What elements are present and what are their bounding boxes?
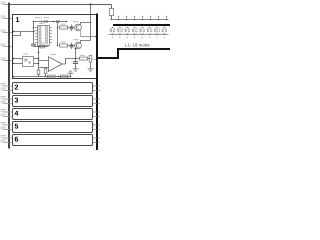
wire row3 left stub a	[3, 98, 13, 100]
wire base Q2	[68, 45, 75, 47]
wire row3 right stub a	[93, 98, 98, 100]
wire opto pin4	[34, 63, 39, 65]
wire terminal rail y19	[110, 19, 169, 21]
bus bar step	[97, 49, 170, 58]
wire op-amp output	[62, 59, 80, 65]
node dots rail y21	[33, 21, 35, 23]
diode D3	[70, 25, 73, 32]
wire vertical x33	[33, 22, 35, 44]
motor unit L6	[148, 26, 151, 37]
diode D5	[40, 45, 45, 48]
wire row4 left stub b	[3, 116, 13, 118]
wire row2 right stub b	[93, 90, 98, 92]
wire emitters to right edge	[81, 36, 98, 38]
IC U1 pads	[39, 27, 48, 44]
bus bar thick top	[113, 24, 170, 26]
wire row3 left stub b	[3, 103, 13, 105]
wire row5 right stub b	[93, 129, 98, 131]
resistor R2	[60, 44, 68, 47]
ground 2	[73, 69, 79, 72]
diode D2	[56, 20, 59, 23]
resistor R5	[80, 57, 88, 60]
wire opto pin2	[13, 63, 23, 65]
wire bus tick y60.5	[3, 60, 13, 62]
wire vertical x57	[57, 22, 59, 46]
wire row6 left stub b	[3, 142, 13, 144]
ground 3	[68, 71, 74, 74]
wire collector Q1	[81, 23, 91, 25]
resistor R8	[61, 75, 69, 78]
wire opto pin1	[13, 58, 23, 60]
diode unit L1	[110, 29, 112, 32]
module row 3	[13, 96, 93, 107]
box 1 thick right edge	[96, 14, 98, 80]
wire motor rail y34	[109, 34, 169, 36]
diode D4	[70, 43, 73, 50]
resistor R9	[111, 5, 113, 9]
motor unit L2	[118, 26, 121, 37]
wire bus tick y18.5	[3, 18, 13, 20]
IC U1 pins	[35, 28, 52, 43]
wire row6 right stub b	[93, 142, 98, 144]
wire row3 right stub b	[93, 103, 98, 105]
motor unit L5	[141, 26, 144, 37]
node 24V tick	[3, 4, 8, 6]
wire stub to ground3	[70, 73, 72, 76]
svg-text:5: 5	[15, 124, 19, 131]
wire emitter Q1 drop	[80, 31, 82, 37]
module row 4	[13, 109, 93, 120]
diode unit L3	[125, 29, 127, 32]
wire row6 left stub a	[3, 137, 13, 139]
left supply bus	[8, 3, 10, 149]
wire row5 right stub a	[93, 124, 98, 126]
resistor R4	[44, 69, 47, 74]
wire base Q1	[68, 27, 75, 29]
optocoupler U3	[23, 57, 34, 67]
wire row5 left stub a	[3, 124, 13, 126]
module box 1	[13, 15, 98, 79]
resistor R1	[60, 26, 68, 29]
motor unit L1	[111, 26, 114, 37]
motor unit L4	[133, 26, 136, 37]
capacitor C2	[75, 49, 77, 62]
wire bus tick y46.5	[3, 46, 13, 48]
wire top supply rail	[9, 4, 112, 6]
motor unit L3	[126, 26, 129, 37]
wire row6 right stub a	[93, 137, 98, 139]
module row 2	[13, 83, 93, 94]
diode unit L8	[162, 29, 164, 32]
wire bottom rail y76	[13, 76, 71, 78]
wire row5 left stub b	[3, 129, 13, 131]
wire in-	[39, 67, 49, 69]
IC U1	[38, 26, 50, 46]
svg-text:1: 1	[16, 17, 20, 24]
svg-text:2: 2	[15, 85, 19, 92]
bus vertical lower right	[96, 58, 98, 150]
wire to trimmer	[88, 58, 91, 60]
wire y46	[34, 46, 49, 48]
wire vertical x90	[90, 15, 92, 41]
diode unit L4	[132, 29, 134, 32]
svg-text:L1- L6 motor: L1- L6 motor	[125, 43, 150, 48]
resistor R7	[48, 75, 56, 78]
motor unit L7	[155, 26, 158, 37]
wire collector Q2	[81, 41, 91, 43]
transistor Q1	[75, 24, 82, 31]
trimmer R6	[89, 56, 92, 63]
node junction x90	[90, 4, 92, 6]
wire row4 left stub a	[3, 111, 13, 113]
wire internal rail y21	[34, 21, 67, 23]
capacitor C1	[31, 43, 36, 45]
terminal pins	[118, 16, 167, 20]
wire row2 left stub b	[3, 90, 13, 92]
wire row2 left stub a	[3, 85, 13, 87]
wire left edge to IC pin	[13, 31, 35, 33]
resistor R3	[37, 70, 40, 75]
wire opto pin3	[34, 58, 39, 60]
wire row4 right stub a	[93, 111, 98, 113]
module row 6	[13, 135, 93, 146]
ground 1	[88, 69, 94, 72]
module row 5	[13, 122, 93, 133]
svg-text:3: 3	[15, 98, 19, 105]
diode unit L5	[139, 29, 141, 32]
svg-text:4: 4	[15, 111, 19, 118]
op-amp U2	[49, 57, 63, 72]
wire row2 right stub a	[93, 85, 98, 87]
svg-text:6: 6	[15, 137, 19, 144]
wire row4 right stub b	[93, 116, 98, 118]
diode unit L2	[117, 29, 119, 32]
wire bus tick y32.5	[3, 32, 13, 34]
wire drop into box 1	[90, 5, 92, 15]
motor unit L8	[163, 26, 166, 37]
transistor Q2	[75, 42, 82, 49]
diode unit L7	[154, 29, 156, 32]
diode unit L6	[147, 29, 149, 32]
wire in+	[39, 60, 49, 62]
wire vertical x38	[38, 47, 40, 71]
diode D1	[44, 20, 47, 23]
